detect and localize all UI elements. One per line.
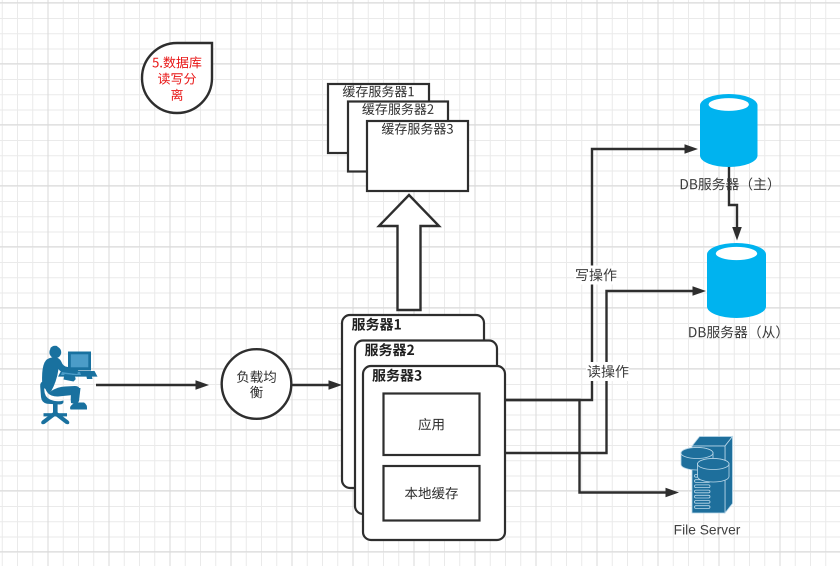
svg-text:File Server: File Server: [674, 523, 741, 538]
